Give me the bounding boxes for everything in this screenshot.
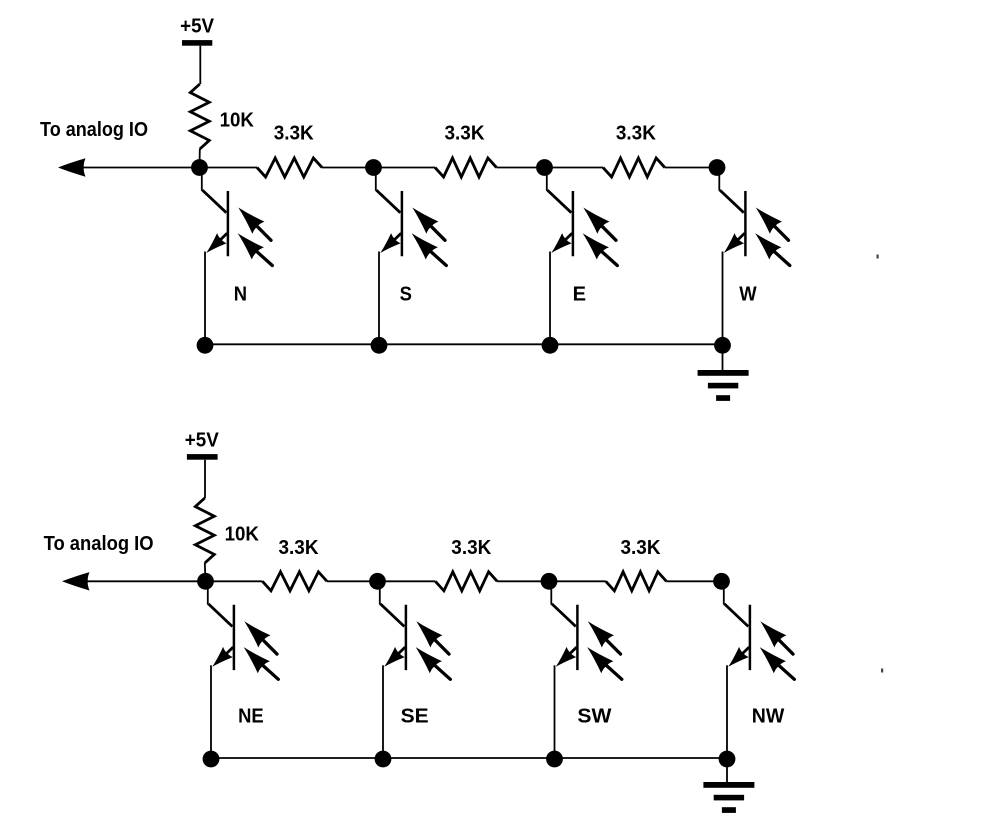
junction on ground rail 4 (top) (714, 337, 731, 354)
svg-text:SW: SW (577, 706, 611, 728)
phototransistor SW (551, 583, 622, 758)
wire: resistor 3.3K #2 to node 3 (497, 580, 549, 582)
svg-text:To analog IO: To analog IO (44, 533, 154, 555)
arrow head: to analog IO (points left) (62, 572, 90, 590)
phototransistor NW (724, 583, 795, 758)
wire: resistor 3.3K #1 to node 2 (322, 167, 374, 169)
phototransistor NE (208, 583, 278, 758)
wire: resistor 10K to node 1 (204, 563, 207, 581)
junction on ground rail 1 (top) (197, 337, 214, 354)
phototransistor N (202, 170, 272, 345)
svg-text:3.3K: 3.3K (451, 537, 492, 559)
resistor 3.3K #2 (top) (435, 158, 497, 177)
wire: resistor 3.3K #1 to node 2 (327, 580, 378, 582)
wire: node 3 to resistor 3.3K #3 (545, 167, 604, 169)
arrow head: to analog IO (points left) (58, 158, 86, 176)
wire: resistor 3.3K #2 to node 3 (497, 167, 545, 169)
wire: resistor 3.3K #3 to node 4 (666, 580, 721, 582)
junction node 2 (top) (365, 159, 382, 176)
wire: node 1 to analog IO arrow (80, 167, 200, 169)
junction node 3 (bottom) (541, 573, 558, 590)
wire: node 3 to resistor 3.3K #3 (549, 580, 606, 582)
phototransistor E (547, 170, 618, 345)
svg-text:3.3K: 3.3K (274, 123, 315, 145)
wire: resistor 10K to node 1 (199, 149, 201, 168)
wire: ground rail (205, 343, 723, 345)
wire: +5V bar to resistor R top (204, 460, 206, 498)
junction on ground rail 3 (top) (542, 337, 559, 354)
wire: node 1 to analog IO arrow (84, 580, 206, 582)
junction on ground rail 1 (bottom) (203, 751, 220, 768)
wire: node 1 to resistor 3.3K #1 (200, 167, 258, 169)
resistor 3.3K #2 (bottom) (435, 572, 497, 591)
junction on ground rail 2 (top) (371, 337, 388, 354)
junction node 2 (bottom) (369, 573, 386, 590)
wire: ground rail (211, 757, 727, 759)
svg-text:3.3K: 3.3K (616, 123, 657, 145)
phototransistor SE (380, 583, 451, 758)
junction node 1 (top) (191, 159, 208, 176)
svg-text:+5V: +5V (185, 429, 220, 451)
svg-text:+5V: +5V (180, 16, 215, 38)
speck (scan artifact) (881, 669, 883, 673)
junction node 4 (top) (709, 159, 726, 176)
resistor 10K (top) (190, 84, 209, 149)
junction node 4 (bottom) (713, 573, 730, 590)
junction node 1 (bottom) (197, 573, 214, 590)
+5V supply rail bar (187, 454, 218, 460)
svg-text:NW: NW (752, 706, 785, 728)
wire: node 2 to resistor 3.3K #2 (374, 167, 436, 169)
resistor 10K (bottom) (195, 498, 214, 563)
junction on ground rail 3 (bottom) (546, 751, 563, 768)
resistor 3.3K #3 (top) (603, 158, 665, 177)
resistor 3.3K #3 (bottom) (606, 572, 667, 591)
wire: node 2 to resistor 3.3K #2 (378, 580, 436, 582)
svg-text:3.3K: 3.3K (445, 123, 486, 145)
svg-text:N: N (234, 283, 247, 305)
ground (top) (698, 344, 749, 401)
+5V supply rail bar (182, 40, 212, 46)
svg-text:SE: SE (401, 706, 429, 728)
svg-text:10K: 10K (220, 109, 255, 131)
svg-text:3.3K: 3.3K (279, 537, 320, 559)
svg-text:To analog IO: To analog IO (40, 119, 148, 141)
resistor 3.3K #1 (bottom) (262, 572, 327, 591)
phototransistor S (376, 170, 447, 345)
svg-text:NE: NE (238, 706, 264, 728)
svg-text:10K: 10K (225, 523, 260, 545)
wire: resistor 3.3K #3 to node 4 (665, 167, 717, 169)
svg-text:S: S (400, 283, 412, 305)
svg-text:E: E (573, 283, 586, 305)
ground (bottom) (703, 758, 754, 813)
wire: +5V bar to resistor R top (199, 46, 201, 84)
phototransistor W (719, 170, 790, 345)
wire: node 1 to resistor 3.3K #1 (206, 580, 263, 582)
svg-text:W: W (739, 283, 757, 305)
junction on ground rail 4 (bottom) (719, 751, 736, 768)
junction node 3 (top) (536, 159, 553, 176)
speck (scan artifact) (877, 255, 879, 259)
resistor 3.3K #1 (top) (257, 158, 322, 177)
junction on ground rail 2 (bottom) (375, 751, 392, 768)
svg-text:3.3K: 3.3K (621, 537, 662, 559)
